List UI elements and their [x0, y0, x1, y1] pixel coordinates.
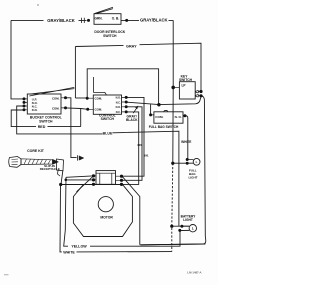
node door switch left — [87, 19, 90, 22]
svg-text:COM.: COM. — [95, 108, 103, 112]
wire battery light top lead from dashed junction — [173, 225, 189, 227]
bucket switch terminal stubs left — [24, 99, 27, 110]
svg-text:SWITCH: SWITCH — [39, 119, 53, 123]
node door switch right — [125, 19, 128, 22]
wire W2 control to key switch — [127, 97, 201, 105]
svg-text:RED: RED — [38, 125, 46, 129]
wire motor r2 up to control dot3 — [123, 107, 143, 181]
wire WHITE riser and bottom run — [60, 185, 172, 252]
battery light L2 — [189, 225, 196, 232]
node full bag light leads — [186, 158, 189, 161]
svg-text:YELLOW: YELLOW — [71, 245, 87, 249]
svg-text:COM.: COM. — [95, 97, 103, 101]
core kit arrow tip — [53, 159, 59, 164]
wire full-bag COM riser — [150, 105, 152, 115]
wire left frame vertical to bucket switch — [11, 20, 23, 99]
full bag light leads — [187, 160, 193, 164]
wire motor l1 diagonal — [77, 176, 94, 192]
label dust speck — [37, 4, 38, 5]
svg-text:300.: 300. — [137, 143, 142, 147]
wire bucket COM2 to control COM2 — [66, 108, 87, 109]
wire H1 bottom horizontal — [140, 243, 206, 246]
wire bucket COM1 down to receptacle connector — [66, 98, 77, 158]
node control COM terminals left — [86, 97, 89, 100]
svg-text:N.O.: N.O. — [116, 97, 121, 100]
svg-text:D.N.: D.N. — [32, 108, 38, 112]
wire motor r1 up to control dot1 — [123, 97, 145, 176]
node key switch feed — [171, 86, 175, 90]
svg-text:FULL BAG SWITCH: FULL BAG SWITCH — [149, 125, 179, 129]
svg-text:COM.: COM. — [52, 96, 60, 100]
battery light leads — [180, 226, 190, 230]
door interlock switch lever — [95, 7, 114, 13]
svg-text:GRAY: GRAY — [126, 45, 137, 49]
bucket control switch S1 body — [27, 94, 61, 114]
node receptacle junction — [59, 183, 62, 186]
wire GRAY horizontal to key switch — [75, 43, 201, 90]
svg-text:N.C.: N.C. — [116, 101, 121, 104]
node full bag NO — [183, 114, 186, 117]
key switch left stub — [174, 86, 179, 88]
node key switch terminal lower — [199, 94, 202, 97]
node yellow riser tap — [65, 179, 68, 182]
svg-text:600.: 600. — [144, 154, 149, 158]
svg-text:SWITCH: SWITCH — [103, 34, 117, 38]
wire riser control COM to GRAY — [74, 47, 76, 99]
control switch actuator — [94, 77, 107, 95]
connector plug symbol — [77, 155, 79, 160]
svg-text:COM.: COM. — [155, 115, 163, 119]
wire RED horizontal — [11, 110, 81, 127]
label arrow to control pins — [133, 107, 137, 113]
wire RED tap vertical — [80, 109, 82, 127]
node battery light junction — [170, 225, 173, 228]
svg-text:RECEPTACLE: RECEPTACLE — [40, 167, 60, 171]
node control terminals right — [125, 96, 128, 99]
motor brush stubs — [94, 176, 122, 185]
control switch terminal stubs right — [122, 97, 126, 112]
svg-text:N.O.: N.O. — [116, 106, 121, 109]
wire W1 loop control COM over to junction — [87, 69, 158, 104]
motor M1 octagon housing — [73, 185, 132, 237]
svg-text:LIGHT: LIGHT — [189, 176, 198, 180]
svg-text:L: L — [192, 227, 194, 231]
motor brush block — [96, 171, 116, 185]
svg-text:LM-1487-A: LM-1487-A — [187, 271, 201, 275]
svg-text:WHITE: WHITE — [63, 251, 75, 255]
wire full-bag light lower lead from junction — [174, 162, 187, 164]
svg-text:WHITE: WHITE — [181, 140, 191, 144]
full bag switch stubs — [151, 114, 186, 117]
svg-text:BLUE: BLUE — [103, 131, 113, 135]
wire motor l2 — [66, 179, 93, 181]
svg-text:CORE KIT: CORE KIT — [27, 149, 45, 153]
control switch S2 body — [93, 95, 121, 114]
svg-text:N.C.: N.C. — [116, 111, 121, 114]
node motor brush right — [120, 175, 123, 178]
node bucket COM terminals right — [64, 96, 67, 99]
wire right frame from key switch down and around bottom — [141, 96, 206, 245]
door interlock switch DS1 body — [94, 14, 121, 25]
motor shaft circle — [98, 197, 113, 212]
wire motor-left l1 to yellow riser corner — [66, 176, 93, 177]
node motor brush left — [92, 174, 95, 177]
svg-text:O. B.: O. B. — [112, 17, 120, 21]
node full bag light junction — [171, 162, 174, 165]
label page artifact dash — [4, 274, 9, 276]
node key switch terminal upper — [199, 90, 202, 93]
bucket control switch lever — [29, 87, 74, 96]
svg-text:BLACK: BLACK — [126, 118, 138, 122]
wire right vertical from top (solid) — [172, 20, 174, 163]
node W2 junction — [157, 103, 160, 106]
wire right vertical (dashed section) — [172, 163, 173, 251]
svg-text:L: L — [196, 160, 198, 164]
core kit shaft hatched — [21, 159, 53, 165]
wire BLUE long horizontal — [17, 106, 179, 226]
core kit key head — [9, 157, 21, 168]
svg-text:MOTOR: MOTOR — [100, 215, 113, 219]
full bag switch S4 body — [154, 112, 183, 123]
svg-text:GRAY/BLACK: GRAY/BLACK — [47, 18, 75, 23]
connector ticks top-left — [82, 18, 85, 23]
bucket switch terminal stubs right — [61, 98, 66, 108]
key switch right terminal marks — [195, 90, 198, 97]
full bag light L1 — [193, 158, 200, 165]
key switch S3 body — [179, 82, 195, 99]
node bucket terminals left — [23, 97, 26, 100]
full bag switch actuator bump — [164, 110, 168, 111]
svg-text:COM.: COM. — [52, 106, 60, 110]
svg-text:SWITCH: SWITCH — [101, 117, 115, 121]
svg-text:GRAY/BLACK: GRAY/BLACK — [140, 18, 168, 23]
wire control dot1 left stub — [75, 97, 86, 99]
svg-text:SWITCH: SWITCH — [179, 78, 193, 82]
slip-in receptacle body — [57, 159, 64, 176]
wire door switch to right corner GRAY/BLACK — [121, 19, 173, 21]
wire top-left feed GRAY/BLACK — [11, 19, 87, 21]
control switch terminal stubs left — [89, 98, 94, 109]
svg-text:N. O.: N. O. — [175, 115, 182, 119]
svg-text:GRN.: GRN. — [95, 17, 103, 21]
node battery light leads — [180, 225, 183, 228]
svg-text:LP: LP — [181, 83, 186, 87]
wire motor r3 up to control dot4 — [123, 112, 139, 184]
node full bag COM — [149, 113, 152, 116]
svg-text:LIGHT: LIGHT — [183, 218, 193, 222]
receptacle lead down — [61, 171, 63, 185]
wire riser H1 to motor diagonal — [122, 176, 140, 244]
wire full-bag switch right to light riser — [186, 116, 188, 159]
wire YELLOW riser and bottom run — [64, 177, 180, 246]
wire motor l3 to receptacle junction — [61, 184, 93, 186]
wire battery light lower lead from yellow riser — [180, 229, 189, 231]
